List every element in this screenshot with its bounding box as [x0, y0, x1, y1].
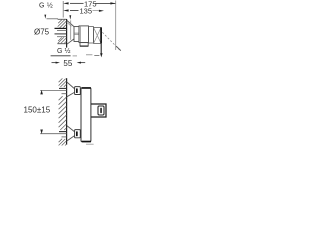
- svg-text:150±15: 150±15: [24, 106, 51, 115]
- wall hatching lower zone (top view): [58, 37, 67, 43]
- wall face line (top view): [66, 19, 68, 48]
- base line under body: [86, 143, 94, 145]
- handle slot: [100, 108, 102, 113]
- handle collar rect3a (top view): [89, 27, 94, 43]
- escutcheon cone inner edge (top view): [67, 22, 72, 26]
- wall hatching between unions: [59, 96, 67, 130]
- dimension 150 plus/minus 15 arrows: [40, 90, 43, 95]
- handle (front view) inner cap: [98, 106, 104, 115]
- top union extension line: [40, 89, 66, 91]
- svg-text:G½: G½: [57, 47, 71, 55]
- cartridge body rect2 (top view): [79, 26, 89, 43]
- bottom union pipe stub lines: [59, 131, 67, 133]
- small mark right of leader: [73, 55, 77, 57]
- thread label leader underline: [51, 55, 71, 57]
- escutcheon cone top edge (top view): [67, 20, 74, 26]
- top union pipe stub lines: [59, 87, 67, 89]
- svg-text:55: 55: [63, 59, 72, 68]
- dimension 175 extension line left: [62, 1, 64, 18]
- wall face line (front view): [66, 78, 68, 144]
- diameter 75 leader arrow right: [69, 15, 71, 19]
- cartridge foot (top view): [80, 43, 88, 47]
- top union escutcheon cone: [67, 82, 75, 89]
- bottom union escutcheon cone: [67, 126, 75, 132]
- dimension 55: [52, 59, 86, 68]
- wall hatching below bottom union: [59, 139, 67, 146]
- wall hatching above top union: [59, 78, 67, 87]
- dimension 175 extension line right: [115, 1, 117, 51]
- wall hatching upper zone (top view): [58, 20, 67, 28]
- escutcheon face vertical (top view): [70, 20, 72, 39]
- supply pipe lines in wall (top view): [55, 27, 67, 29]
- diameter 75 leader line: [47, 18, 59, 20]
- bottom union extension line: [40, 133, 66, 135]
- svg-text:Ø75: Ø75: [34, 28, 50, 37]
- handle swing dashed line: [102, 32, 119, 49]
- mixer body (front view): [81, 88, 91, 142]
- vertical dimension at handle tip: [100, 44, 102, 54]
- handle grip end rect3b with cross (top view): [94, 28, 102, 44]
- dimension 135: [63, 7, 104, 16]
- cartridge collar rect1 (top view): [74, 27, 79, 42]
- svg-text:G½: G½: [39, 2, 53, 10]
- dimension 175: [63, 0, 115, 8]
- wall section (top view) bottom edge: [57, 43, 66, 45]
- escutcheon cone bottom edge (top view): [67, 39, 74, 44]
- diameter 75 leader arrow left: [44, 15, 46, 19]
- handle (front view) outer: [91, 104, 106, 117]
- svg-text:135: 135: [80, 7, 93, 16]
- wall section (top view) top edge: [58, 18, 67, 20]
- top union nut: [75, 87, 81, 95]
- bottom union nut: [75, 130, 81, 138]
